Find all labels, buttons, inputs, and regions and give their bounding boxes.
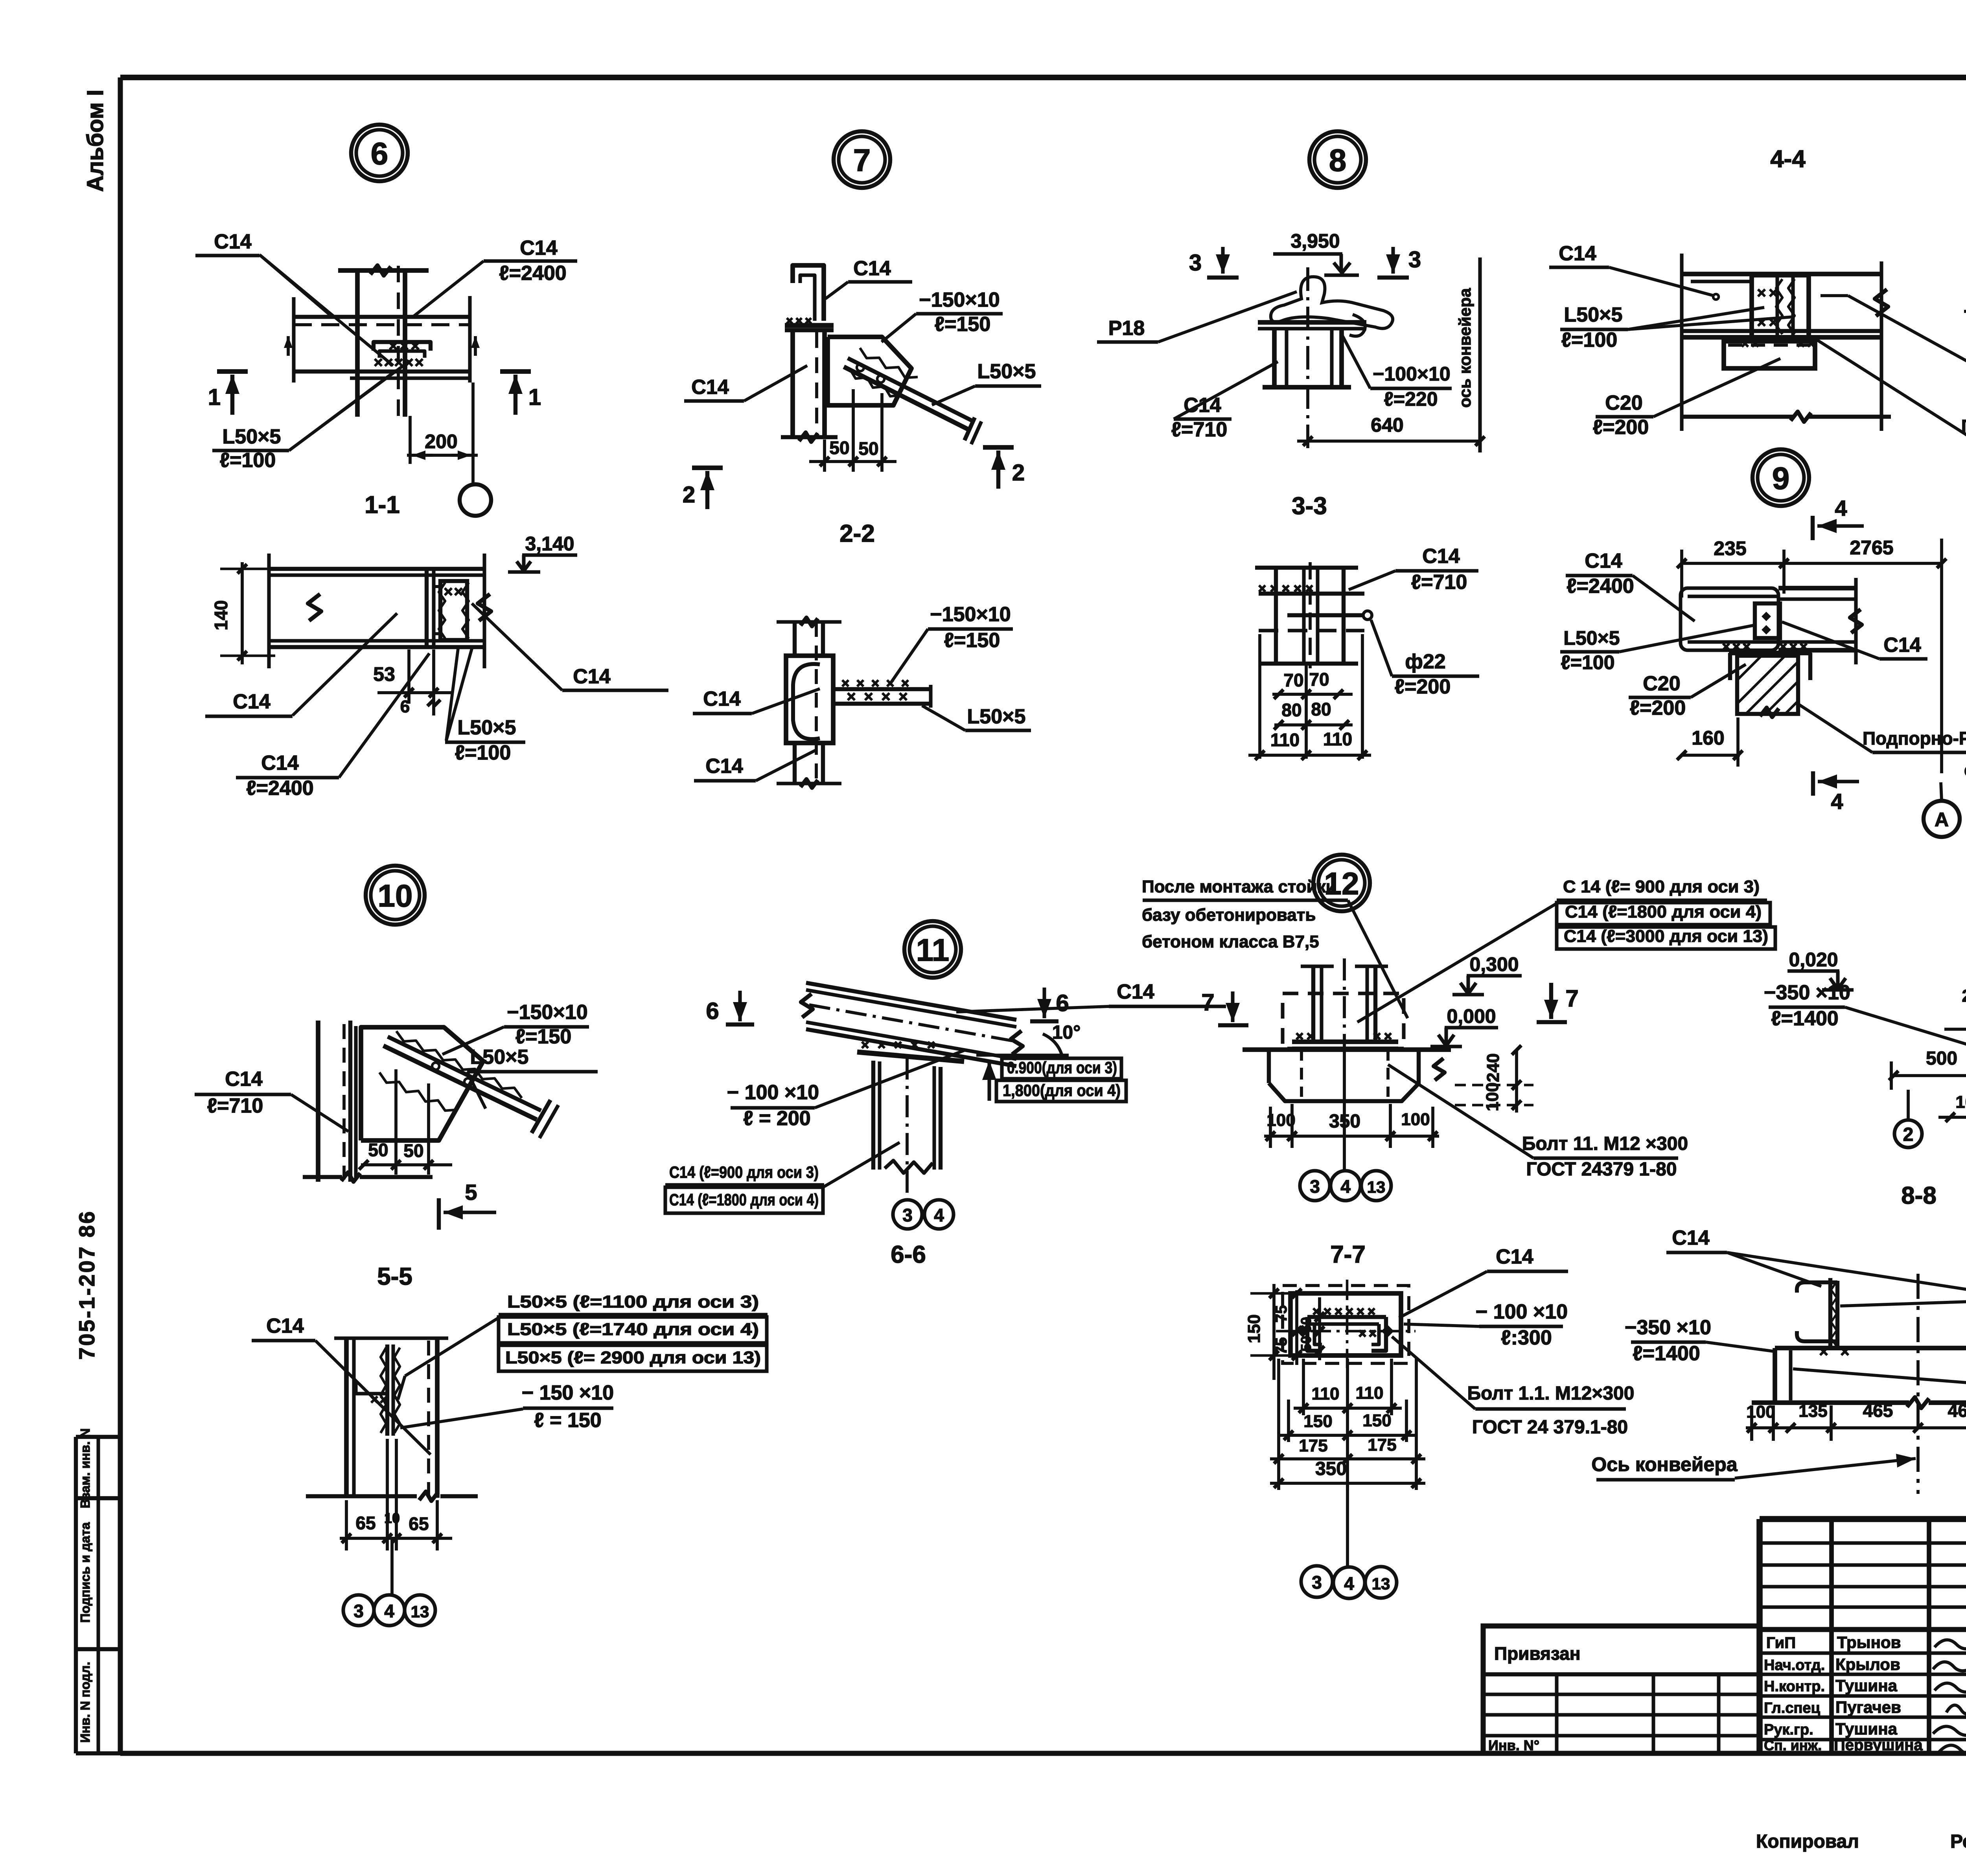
node 6 marker circle [351, 125, 408, 181]
label -150x10 l=150 (section 5-5) [400, 1381, 614, 1432]
section 8-8 bottom dimensions 100 135 465 465 135 100 [1746, 1400, 1966, 1441]
section title 5-5 [377, 1263, 412, 1290]
svg-text:70: 70 [1309, 669, 1329, 690]
section 7-7 channel profile with welds [1307, 1308, 1386, 1351]
svg-text:80: 80 [1311, 699, 1331, 719]
footer Копировал Реброва Формат А2 [1756, 1831, 1966, 1852]
svg-text:8: 8 [1329, 143, 1347, 178]
svg-text:Н.контр.: Н.контр. [1764, 1678, 1825, 1695]
title block main frame [1760, 1519, 1966, 1753]
node 7 marker circle [834, 131, 890, 188]
svg-text:− 100 ×10: − 100 ×10 [1476, 1300, 1568, 1323]
svg-text:640: 640 [1371, 414, 1403, 436]
section 7-7 bottom dimensions 110 150 175 350 [1270, 1359, 1425, 1490]
label C14 (section 2-2 lower) [694, 750, 816, 781]
svg-text:70: 70 [1283, 670, 1303, 690]
label L50x5 (node 10) [467, 1046, 598, 1109]
label C14 (node 9 right) [1782, 622, 1927, 659]
conveyor axis line and label (node 8) [1456, 257, 1480, 452]
label C14 l=2400 (node 9) [1566, 550, 1695, 621]
svg-text:Рук.гр.: Рук.гр. [1764, 1722, 1813, 1738]
node 10 marker circle [366, 866, 425, 925]
svg-text:65: 65 [355, 1513, 376, 1533]
svg-text:С14 (ℓ=1800 для оси 4): С14 (ℓ=1800 для оси 4) [1565, 902, 1762, 921]
svg-text:Тушина: Тушина [1835, 1676, 1898, 1695]
svg-text:2: 2 [1903, 1124, 1914, 1145]
section mark 7 down (node 12) [1537, 983, 1579, 1022]
svg-text:−350 ×10: −350 ×10 [1625, 1316, 1711, 1339]
title block signatures [1933, 1636, 1966, 1754]
node 4-4 support pad C20 [1724, 341, 1815, 368]
section mark 2-2 right [983, 447, 1025, 489]
section 2-2 column with channel profile [777, 618, 841, 788]
svg-text:0,020: 0,020 [1789, 949, 1838, 971]
svg-text:175: 175 [1368, 1435, 1396, 1455]
svg-text:− 100 ×10: − 100 ×10 [727, 1081, 819, 1104]
svg-text:С14: С14 [266, 1315, 304, 1337]
label -100x10 l=300 (section 7-7) [1404, 1300, 1568, 1349]
svg-text:3: 3 [1189, 250, 1202, 276]
level line 0,000 (node 13) [1944, 1028, 1966, 1031]
title block personnel roles [1764, 1634, 1825, 1753]
label P18 (node 8) [1097, 292, 1297, 342]
svg-text:С14: С14 [703, 688, 740, 710]
title block revision rows [1760, 1543, 1966, 1630]
svg-text:ℓ=150: ℓ=150 [935, 313, 991, 336]
svg-text:−100×10: −100×10 [1373, 363, 1450, 385]
svg-text:ГОСТ 24 379.1-80: ГОСТ 24 379.1-80 [1472, 1417, 1628, 1438]
svg-text:Пугачев: Пугачев [1835, 1698, 1901, 1716]
svg-text:Привязан: Привязан [1494, 1643, 1581, 1664]
svg-text:L50×5 (ℓ=1740 для оси 4): L50×5 (ℓ=1740 для оси 4) [507, 1320, 759, 1339]
svg-text:Подпись и дата: Подпись и дата [78, 1522, 92, 1623]
node 7 diagonal angle L50x5 with welds [844, 348, 981, 444]
boxed labels C14 for axes 3 4 13 (node 12) [1357, 877, 1775, 1022]
section 5-5 inner plate -150x10 with welds [356, 1344, 400, 1436]
label Подпорно-Разделительная стенка (node 9) [1799, 704, 1966, 780]
elevation mark 3.140 (section 1-1) [508, 533, 577, 572]
svg-text:100: 100 [1746, 1402, 1775, 1422]
svg-text:Инв. N°: Инв. N° [1488, 1737, 1539, 1753]
section 1-1 beam flanges [269, 554, 491, 668]
svg-text:50: 50 [368, 1140, 388, 1160]
label C14 (node 4-4 left) [1549, 242, 1719, 300]
conveyor centerline (section 8-8) [1916, 1274, 1920, 1494]
svg-text:80: 80 [1281, 700, 1301, 720]
node 8 rail P18 profile [1271, 277, 1393, 336]
svg-text:Трынов: Трынов [1837, 1633, 1901, 1652]
svg-text:ГОСТ 24379 1-80: ГОСТ 24379 1-80 [1526, 1159, 1677, 1180]
svg-text:100: 100 [1401, 1110, 1430, 1129]
svg-text:175: 175 [1299, 1436, 1327, 1455]
svg-text:ℓ=100: ℓ=100 [1561, 329, 1618, 351]
dimension 140 (section 1-1 beam depth) [211, 562, 275, 664]
svg-text:1-1: 1-1 [364, 491, 400, 519]
section 5-5 column [306, 1338, 478, 1501]
svg-text:3: 3 [1408, 247, 1421, 272]
label Ось конвейера (section 8-8) [1591, 1453, 1916, 1480]
svg-text:ℓ=100: ℓ=100 [455, 741, 511, 764]
section mark 1-1 right [500, 372, 541, 415]
svg-text:350: 350 [1315, 1458, 1347, 1479]
svg-text:7: 7 [853, 143, 871, 178]
svg-text:Альбом I: Альбом I [83, 90, 108, 192]
svg-text:3: 3 [353, 1601, 364, 1621]
label C14 l=2400 (node 6 top right) [413, 237, 577, 317]
svg-text:ℓ = 200: ℓ = 200 [743, 1107, 810, 1130]
svg-text:Ось конвейера: Ось конвейера [1591, 1453, 1738, 1475]
svg-text:4: 4 [934, 1205, 944, 1225]
svg-text:10: 10 [378, 878, 413, 913]
svg-text:ℓ=200: ℓ=200 [1593, 416, 1649, 439]
svg-text:3,140: 3,140 [525, 533, 574, 555]
svg-text:3: 3 [1312, 1572, 1322, 1593]
svg-text:2: 2 [1012, 460, 1025, 486]
svg-text:ℓ=2400: ℓ=2400 [246, 777, 313, 800]
svg-text:L50×5: L50×5 [458, 716, 516, 739]
section title 7-7 [1330, 1241, 1366, 1268]
svg-text:150: 150 [1303, 1412, 1332, 1431]
svg-text:9: 9 [1772, 461, 1790, 496]
dimensions 100 350 100 (node 12) [1264, 1104, 1439, 1148]
section 8-8 base slab [1752, 1348, 1966, 1408]
svg-text:L50×5 (ℓ=1100 для оси 3): L50×5 (ℓ=1100 для оси 3) [507, 1292, 759, 1311]
svg-text:50: 50 [858, 438, 878, 459]
label C14 l=2400 (section 1-1) [236, 653, 429, 800]
svg-text:С14: С14 [214, 230, 251, 253]
svg-text:135: 135 [1798, 1401, 1827, 1421]
label L50x5 l=100 (node 4-4) [1560, 303, 1793, 351]
svg-text:3-3: 3-3 [1292, 493, 1327, 520]
svg-text:0,300: 0,300 [1469, 953, 1519, 975]
section mark 4 bottom (node 9) [1813, 771, 1859, 814]
svg-text:ось конвейера: ось конвейера [1456, 288, 1474, 408]
svg-text:150: 150 [1362, 1411, 1391, 1430]
section mark 4 top (node 9) [1813, 496, 1864, 540]
axis circles 3 4 (node 11) [893, 1200, 954, 1229]
svg-text:50: 50 [829, 438, 849, 458]
svg-text:ℓ=2400: ℓ=2400 [499, 262, 566, 285]
node 9 concrete wall block hatched [1737, 656, 1798, 717]
node 11 column [873, 1058, 941, 1199]
svg-text:С14: С14 [1672, 1227, 1709, 1249]
svg-text:С20: С20 [1643, 672, 1680, 695]
binding box Привязан [1483, 1626, 1760, 1753]
svg-text:11: 11 [916, 932, 950, 967]
svg-text:7: 7 [1201, 989, 1214, 1015]
svg-text:С14: С14 [233, 690, 270, 713]
section 3-3 witness lines [1260, 634, 1362, 759]
node 7 gusset plate -150x10 [828, 337, 911, 405]
svg-text:10°: 10° [1052, 1022, 1081, 1043]
svg-text:7-7: 7-7 [1330, 1241, 1366, 1268]
label C14 with leaders (node 6 top left) [195, 230, 393, 366]
node 8 beam flange and column [1258, 267, 1366, 452]
left margin label Альбом I [83, 90, 108, 192]
label C20 l=200 (node 4-4) [1593, 359, 1780, 439]
svg-text:Подпорно-Разделительная: Подпорно-Разделительная [1863, 728, 1966, 749]
svg-text:Тушина: Тушина [1835, 1720, 1898, 1738]
node 6 column C14 (vertical member) [338, 265, 429, 420]
dimension 20 (node 13) [1962, 986, 1966, 1013]
node 4-4 twin channels C14 with welds [1742, 275, 1817, 347]
svg-text:110: 110 [1356, 1383, 1384, 1403]
label bolt 1.1 M12x300 GOST (section 7-7) [1392, 1337, 1634, 1438]
node 12 column on base plate [1283, 958, 1404, 1054]
svg-text:75: 75 [1273, 1305, 1290, 1323]
svg-text:С14: С14 [573, 665, 610, 688]
svg-text:С14: С14 [691, 376, 729, 399]
label C14 (node 7 top) [825, 257, 912, 299]
node 7 column C14 with top bracket [781, 265, 838, 442]
svg-text:110: 110 [1323, 729, 1352, 749]
svg-text:ℓ=710: ℓ=710 [1411, 571, 1467, 594]
dimension 50 50 (node 7) [809, 389, 896, 472]
svg-text:7: 7 [1565, 985, 1578, 1012]
svg-text:ℓ=1400: ℓ=1400 [1771, 1007, 1838, 1030]
section 8-8 left channel post C14 [1797, 1278, 1848, 1355]
section title 8-8 [1901, 1182, 1937, 1209]
svg-text:100: 100 [1483, 1082, 1502, 1111]
svg-text:Р18: Р18 [1108, 317, 1145, 340]
svg-text:2-2: 2-2 [839, 520, 875, 547]
dimension 200 (node 6) [407, 383, 478, 483]
svg-text:4: 4 [1835, 496, 1847, 520]
svg-text:ℓ=1400: ℓ=1400 [1633, 1342, 1700, 1365]
svg-text:13: 13 [1372, 1574, 1390, 1593]
svg-text:20: 20 [1962, 986, 1966, 1006]
section mark 5 (node 10) [439, 1180, 496, 1230]
boxed labels L50x5 for axes 3 4 13 (section 5-5) [398, 1292, 768, 1400]
svg-text:ф22: ф22 [1405, 650, 1445, 673]
dimensions 53 and 6 (section 1-1) [373, 649, 452, 716]
label L50x5 l=100 (section 1-1) [445, 649, 525, 764]
svg-text:ℓ=150: ℓ=150 [515, 1025, 572, 1048]
svg-text:ℓ = 150: ℓ = 150 [534, 1409, 601, 1432]
node 8 marker circle [1309, 131, 1366, 188]
node 11 marker circle [904, 921, 961, 978]
boxed labels C14 for axes 3 4 (node 11) [665, 1142, 900, 1213]
svg-text:1,800(для оси 4): 1,800(для оси 4) [1003, 1081, 1121, 1100]
svg-text:2: 2 [683, 482, 695, 508]
svg-text:5: 5 [465, 1180, 477, 1205]
label C14 (section 7-7) [1399, 1245, 1568, 1318]
svg-text:−350 ×10: −350 ×10 [1764, 981, 1850, 1004]
label C14 l=710 (node 10) [195, 1068, 348, 1131]
section 2-2 horizontal arm -150x10 with welds [833, 680, 931, 708]
svg-text:С14 (ℓ=1800 для оси 4): С14 (ℓ=1800 для оси 4) [669, 1190, 819, 1209]
boxed level labels for axes (node 11) [982, 1058, 1126, 1102]
svg-text:8-8: 8-8 [1901, 1182, 1937, 1209]
svg-text:ℓ=100: ℓ=100 [220, 449, 276, 472]
svg-text:ℓ=200: ℓ=200 [1395, 675, 1451, 698]
svg-text:3,950: 3,950 [1290, 230, 1340, 252]
label Подпорно-разделительная стенка (node 4-4) [1817, 340, 1966, 472]
svg-text:ℓ=100: ℓ=100 [1561, 651, 1614, 673]
svg-text:75: 75 [1273, 1337, 1290, 1355]
svg-text:240: 240 [1484, 1053, 1503, 1082]
section title 1-1 [364, 491, 400, 519]
svg-text:С14: С14 [225, 1068, 262, 1091]
note text after mounting (node 12 area) [1142, 877, 1408, 1018]
node 6 beam C14 (horizontal, dashed hidden lines) [284, 296, 480, 383]
svg-text:3: 3 [1310, 1176, 1320, 1197]
svg-text:Реброва: Реброва [1950, 1831, 1966, 1852]
svg-text:53: 53 [373, 663, 395, 685]
section 7-7 centerlines and bolts [1276, 1280, 1416, 1368]
label bolt 1.1 M12x300 GOST (section 8-8) [1793, 1368, 1966, 1416]
node 6 connection angles L50x5 with welds [374, 342, 431, 366]
svg-text:Сп. инж.: Сп. инж. [1764, 1737, 1822, 1753]
svg-text:50: 50 [1298, 1317, 1314, 1333]
label C20 l=200 (node 9) [1629, 664, 1746, 719]
svg-text:ℓ=150: ℓ=150 [944, 629, 1000, 652]
svg-text:50: 50 [403, 1140, 423, 1161]
label L50x5 l=100 (node 6) [212, 361, 410, 472]
label C14 (section 1-1 right) [472, 603, 668, 690]
section 7-7 base plate outline [1283, 1286, 1409, 1363]
section title 6-6 [891, 1241, 926, 1268]
svg-text:Болт 11. М12 ×300: Болт 11. М12 ×300 [1522, 1133, 1688, 1154]
dimensions 110 110 (section 3-3) [1248, 729, 1371, 760]
left margin document number 705-1-207 86 [74, 1210, 99, 1359]
svg-text:Первушина: Первушина [1834, 1736, 1923, 1754]
label C14 (section 8-8) [1666, 1227, 1966, 1293]
title block personnel rows [1760, 1653, 1966, 1740]
svg-text:50: 50 [1298, 1336, 1314, 1352]
svg-text:13: 13 [1367, 1178, 1386, 1196]
svg-text:L50×5: L50×5 [967, 705, 1026, 728]
axis circle 2 (node 13) [1894, 1090, 1922, 1148]
axis bubble circle (node 6) [460, 483, 491, 516]
svg-text:6: 6 [371, 136, 388, 171]
angle 10 deg (node 11) [976, 1022, 1081, 1055]
svg-text:12: 12 [1324, 866, 1359, 901]
svg-text:4: 4 [1340, 1176, 1351, 1197]
svg-text:110: 110 [1270, 730, 1300, 750]
node 11 cap plate with welds [857, 1042, 964, 1061]
dimensions 65 10 65 (section 5-5) [340, 1439, 452, 1550]
svg-text:0,000: 0,000 [1447, 1005, 1496, 1027]
dimension 160 (node 9) [1677, 717, 1743, 767]
section 1-1 splice plates with welds [427, 569, 469, 647]
svg-text:Гл.спец: Гл.спец [1764, 1700, 1821, 1716]
section title 4-4 [1770, 145, 1806, 173]
svg-text:С14: С14 [1585, 550, 1622, 572]
node 11 inclined beam C14 [801, 983, 1023, 1066]
svg-text:−150×10: −150×10 [507, 1001, 587, 1024]
svg-text:А: А [1935, 809, 1949, 831]
section 7-7 left vertical dimensions 150 75 75 50 50 [1244, 1284, 1324, 1380]
node 10 diagonal brace L50x5 with welds [379, 1031, 558, 1138]
dimensions 235 2765 (node 9) [1677, 537, 1946, 773]
section mark 1-1 left [208, 372, 248, 415]
section mark 6 left (node 11) [706, 991, 754, 1024]
svg-text:465: 465 [1948, 1400, 1966, 1421]
svg-text:базу обетонировать: базу обетонировать [1142, 905, 1316, 925]
svg-text:ℓ=710: ℓ=710 [207, 1094, 263, 1117]
svg-text:Крылов: Крылов [1835, 1655, 1900, 1674]
label -150x10 l=150 (section 8-8) [1840, 1272, 1966, 1320]
svg-text:L50×5 (ℓ= 2900 для оси 13): L50×5 (ℓ= 2900 для оси 13) [505, 1348, 761, 1367]
svg-text:6-6: 6-6 [891, 1241, 926, 1268]
svg-text:С14: С14 [261, 752, 298, 774]
svg-text:465: 465 [1863, 1400, 1893, 1421]
node 12 foundation [1243, 1049, 1451, 1101]
elevation 3,950 (node 8) [1273, 230, 1359, 275]
svg-text:6: 6 [706, 998, 719, 1024]
svg-text:ℓ=2400: ℓ=2400 [1567, 575, 1634, 598]
node 10 wall column [303, 1021, 433, 1182]
svg-text:стенка: стенка [1964, 760, 1966, 780]
label C14 (node 11 top) [956, 980, 1226, 1012]
svg-text:140: 140 [211, 600, 231, 631]
svg-text:L50×5: L50×5 [223, 425, 281, 448]
svg-text:4-4: 4-4 [1770, 145, 1806, 173]
label -150x10 l=150 (node 10) [442, 1001, 589, 1054]
svg-text:Копировал: Копировал [1756, 1831, 1859, 1852]
section mark 6 right (node 11) [1030, 988, 1069, 1021]
node 4-4 beam assembly [1682, 254, 1888, 431]
svg-text:4: 4 [384, 1601, 394, 1621]
svg-text:4: 4 [1831, 789, 1843, 814]
svg-text:200: 200 [425, 430, 457, 452]
label C14 l=710 (node 8) [1171, 362, 1278, 441]
label ф22 l=200 (section 3-3) [1371, 620, 1479, 698]
node 9 seat angle and welds [1723, 644, 1812, 680]
label bolt 11 M12x300 GOST (node 12) [1388, 1065, 1688, 1180]
section title 3-3 [1292, 493, 1327, 520]
svg-text:6: 6 [1056, 990, 1069, 1016]
node 12 marker circle [1313, 855, 1370, 911]
label -150x10 l=150 (node 7) [882, 289, 1003, 342]
svg-text:100: 100 [1955, 1092, 1966, 1112]
svg-text:13: 13 [411, 1602, 429, 1621]
svg-text:ℓ:300: ℓ:300 [1501, 1326, 1552, 1349]
section title 2-2 [839, 520, 875, 547]
svg-text:С 14 (ℓ= 900 для оси 3): С 14 (ℓ= 900 для оси 3) [1563, 877, 1760, 896]
node 9 channel box C14 [1681, 578, 1862, 664]
node 9 marker circle [1752, 449, 1809, 506]
svg-text:С14: С14 [1422, 545, 1460, 568]
left margin stamp cells [76, 1428, 122, 1753]
svg-text:150: 150 [1244, 1314, 1264, 1343]
svg-text:−150×10: −150×10 [930, 603, 1011, 626]
dimensions 100 200 100 (node 13) [1938, 1091, 1966, 1122]
node 4-4 ground line [1683, 412, 1891, 422]
svg-text:С14: С14 [705, 755, 743, 778]
svg-text:110: 110 [1312, 1384, 1340, 1403]
svg-text:Инв. N подл.: Инв. N подл. [78, 1662, 92, 1743]
svg-text:ℓ=710: ℓ=710 [1171, 418, 1228, 441]
svg-text:L50×5: L50×5 [1564, 303, 1623, 326]
label -100x10 l=220 (node 8) [1342, 334, 1452, 410]
svg-text:160: 160 [1692, 727, 1724, 749]
dimension 50 50 (node 10) [359, 1069, 452, 1175]
svg-text:ℓ=200: ℓ=200 [1630, 697, 1686, 719]
svg-text:С14: С14 [1117, 980, 1154, 1003]
node 10 gusset plate -150x10 [361, 1027, 483, 1140]
section mark 3 right (node 8) [1377, 247, 1421, 278]
svg-text:4: 4 [1344, 1573, 1354, 1594]
svg-text:705-1-207 86: 705-1-207 86 [74, 1210, 99, 1359]
svg-text:1: 1 [208, 384, 221, 410]
label C14 (section 5-5) [252, 1315, 431, 1455]
svg-text:L50×5: L50×5 [977, 360, 1036, 383]
dimensions 80 80 (section 3-3) [1274, 699, 1353, 730]
elevation 0,020 (node 13) [1787, 949, 1854, 990]
svg-text:0.900(для оси 3): 0.900(для оси 3) [1007, 1058, 1117, 1077]
